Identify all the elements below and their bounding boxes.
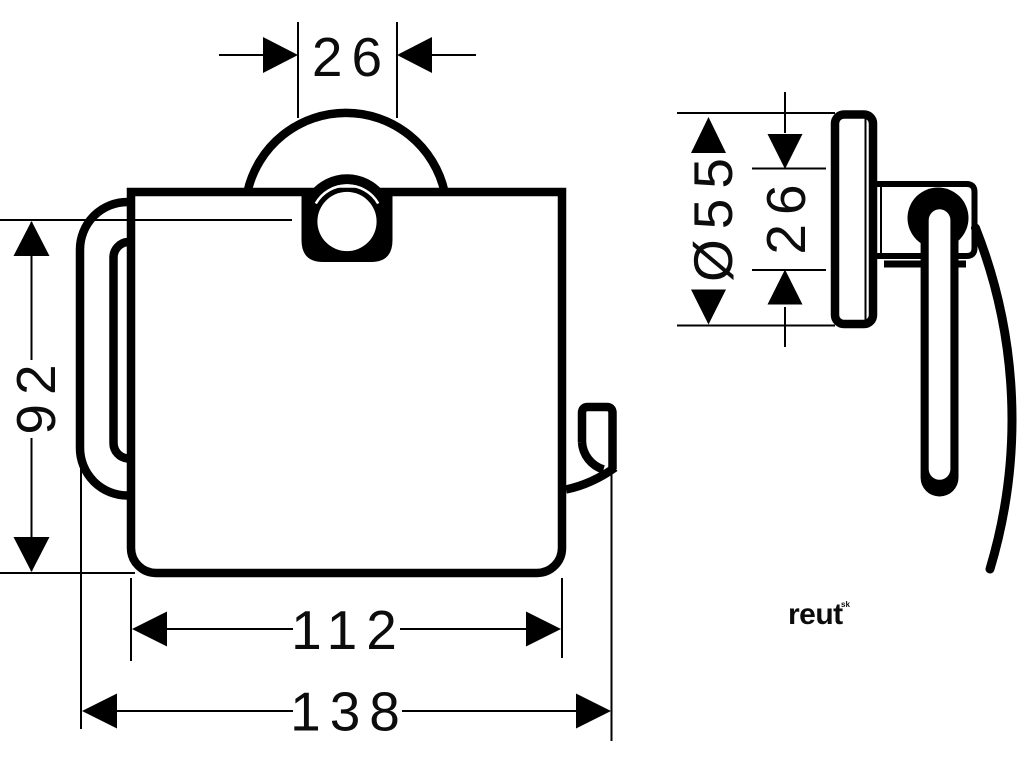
dimension 112: dimension line left segment bbox=[166, 628, 293, 630]
dimension 112: left extension line bbox=[130, 578, 132, 661]
svg-text:Ø55: Ø55 bbox=[682, 148, 744, 282]
front view: cover plate outline bbox=[131, 192, 562, 573]
dimension D55: bottom extension line bbox=[677, 325, 835, 327]
front view: knob white center circle bbox=[317, 192, 376, 251]
dimension 92: bottom extension line at cover bottom bbox=[0, 572, 135, 574]
dimension 112: right arrowhead bbox=[526, 612, 561, 647]
dimension D55: up arrowhead bbox=[691, 117, 726, 153]
dimension 26 side: upper extension line bbox=[752, 168, 826, 170]
side view: lid profile curve bbox=[976, 228, 1012, 569]
side view: plate face thin line bbox=[865, 118, 867, 321]
dimension 26 top: right extension line bbox=[396, 22, 398, 118]
dimension 26 top: left arrowhead bbox=[263, 37, 298, 73]
side view: lid lower edge line bbox=[884, 261, 966, 268]
side view: hanging arm black capsule bbox=[921, 200, 959, 497]
svg-text:reut: reut bbox=[788, 598, 843, 631]
dimension 112: right extension line bbox=[561, 578, 563, 658]
svg-text:92: 92 bbox=[5, 355, 67, 434]
dimension 26 top: right leader line bbox=[429, 54, 476, 56]
dimension 92: down arrowhead bbox=[14, 537, 50, 572]
side view: wall plate rounded rect bbox=[835, 115, 873, 325]
svg-text:26: 26 bbox=[312, 26, 391, 88]
dimension 26 side: down arrowhead bbox=[768, 134, 803, 169]
dimension 26 side: dimension line lower segment bbox=[784, 307, 786, 347]
front view: right hook tab outline bbox=[582, 407, 613, 469]
dimension 138: dimension line left segment bbox=[116, 710, 293, 712]
dimension D55: top extension line bbox=[677, 112, 835, 114]
dimension 92: dimension line upper segment bbox=[31, 222, 33, 360]
side view: holder box outline bbox=[875, 184, 975, 256]
dimension 138: left arrowhead bbox=[82, 694, 117, 729]
svg-text:sk: sk bbox=[841, 600, 850, 609]
dimension 26 top: right arrowhead bbox=[397, 37, 432, 73]
dimension 92: up arrowhead bbox=[14, 221, 50, 256]
front view: roll bar outer edge bbox=[80, 202, 128, 496]
front view: arc band above knob bbox=[315, 179, 380, 194]
dimension 26 top: left extension line bbox=[297, 22, 299, 118]
dimension 138: dimension line right segment bbox=[402, 710, 577, 712]
front view: mounting hump semicircle bbox=[247, 113, 444, 192]
dimension 26 side: lower extension line bbox=[752, 269, 826, 271]
dimension 138: right extension line bbox=[611, 470, 613, 741]
dimension 26 side: up arrowhead bbox=[768, 270, 803, 305]
dimension 92: top extension line at knob centerline bbox=[0, 219, 292, 221]
side view: pivot donut bbox=[908, 188, 969, 249]
front view: right hook inner arc bbox=[582, 442, 604, 470]
svg-text:112: 112 bbox=[291, 599, 406, 661]
dimension 138: left extension line bbox=[80, 455, 82, 729]
svg-text:26: 26 bbox=[755, 175, 817, 254]
side view: arm white inner capsule bbox=[929, 209, 951, 480]
dimension 112: dimension line right segment bbox=[400, 628, 528, 630]
front view: roll bar inner edge bbox=[113, 242, 127, 459]
dimension 26 top: left leader line bbox=[219, 54, 266, 56]
side view: box divider thin line bbox=[880, 185, 882, 254]
dimension 92: dimension line lower segment bbox=[31, 438, 33, 571]
front view: right hook outer curve bbox=[566, 468, 615, 490]
dimension D55: down arrowhead bbox=[691, 290, 726, 325]
front view: knob cup filled notch bbox=[302, 188, 393, 262]
dimension 138: right arrowhead bbox=[576, 694, 611, 729]
dimension 112: left arrowhead bbox=[132, 612, 167, 647]
svg-text:138: 138 bbox=[290, 681, 409, 743]
dimension 26 side: dimension line upper segment bbox=[784, 92, 786, 133]
front view: white separation sliver arc bbox=[316, 185, 378, 203]
